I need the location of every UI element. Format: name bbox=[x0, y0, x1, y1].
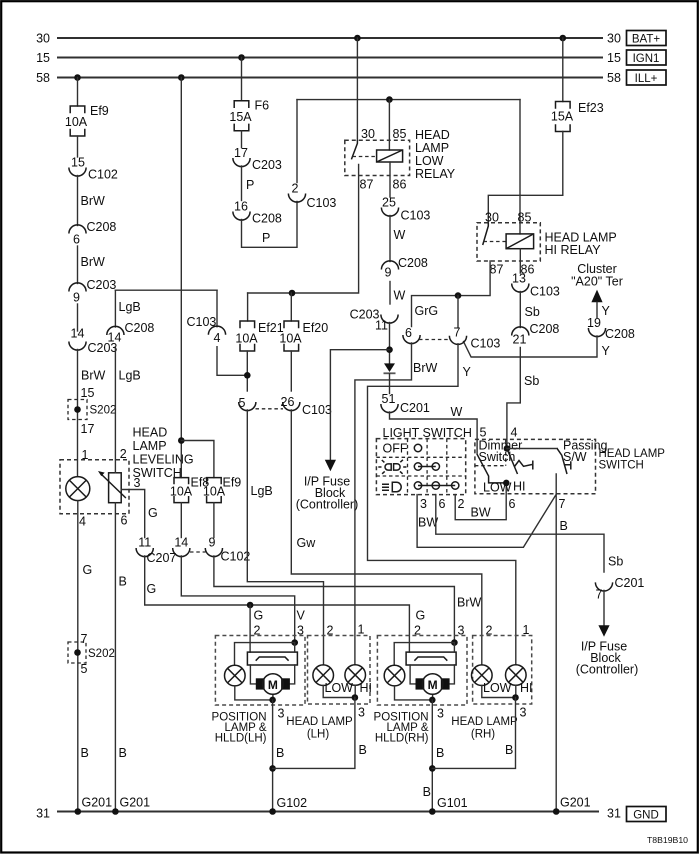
svg-text:W: W bbox=[394, 228, 406, 242]
svg-text:6: 6 bbox=[509, 497, 516, 511]
dashed link C103 5-26 bbox=[256, 408, 284, 410]
svg-text:G201: G201 bbox=[82, 796, 113, 810]
svg-text:B: B bbox=[560, 519, 568, 533]
svg-text:LOW: LOW bbox=[325, 681, 354, 695]
svg-text:C103: C103 bbox=[307, 196, 337, 210]
ground G201 junction bbox=[75, 808, 82, 815]
svg-text:Sb: Sb bbox=[525, 305, 540, 319]
svg-text:21: 21 bbox=[513, 333, 527, 347]
svg-text:31: 31 bbox=[607, 807, 621, 821]
connector 11 C203 bbox=[350, 308, 398, 333]
svg-text:C208: C208 bbox=[87, 220, 117, 234]
wire Ef8 to C102-14 bbox=[180, 503, 182, 538]
passing switch label bbox=[563, 439, 608, 465]
wire B position lamp RH to G101 bbox=[423, 700, 468, 812]
connector 14 C208 bbox=[107, 321, 155, 345]
svg-text:OFF: OFF bbox=[383, 442, 408, 456]
svg-text:G102: G102 bbox=[277, 796, 308, 810]
ground G102 junction bbox=[269, 808, 276, 815]
svg-text:S/W: S/W bbox=[563, 450, 587, 464]
wire Ef21 drop bbox=[247, 293, 249, 321]
junction to I/P fuse block branch bbox=[386, 346, 393, 353]
svg-text:C103: C103 bbox=[530, 285, 560, 299]
svg-text:Sb: Sb bbox=[608, 555, 623, 569]
svg-text:3: 3 bbox=[278, 707, 285, 721]
svg-text:"A20" Ter: "A20" Ter bbox=[571, 275, 623, 289]
wire bus30 to fuse Ef23 bbox=[562, 38, 564, 102]
svg-text:30: 30 bbox=[36, 32, 50, 46]
svg-text:G: G bbox=[83, 563, 93, 577]
wire LOW relay pin 86 to C103-25 bbox=[389, 162, 391, 197]
svg-text:3: 3 bbox=[420, 497, 427, 511]
wire B head lamp switch pin7 to G201 bbox=[556, 474, 590, 812]
wire G C207 to position lamps pin2 bbox=[145, 556, 410, 652]
svg-text:BrW: BrW bbox=[81, 194, 106, 208]
fuse Ef20 10A bbox=[279, 321, 328, 351]
junction with head lamp LH return bbox=[269, 765, 276, 772]
connector 9 C102 bbox=[205, 536, 250, 564]
diode D1 bbox=[384, 363, 396, 373]
connector 19 C208 bbox=[587, 316, 635, 341]
wire bus15 to fuse F6 bbox=[241, 58, 243, 101]
svg-text:LgB: LgB bbox=[119, 369, 141, 383]
svg-text:LAMP: LAMP bbox=[415, 141, 449, 155]
junction Ef21 to leveling feed bbox=[244, 372, 251, 379]
wire Ef20 drop bbox=[290, 293, 292, 321]
fuse Ef21 10A bbox=[235, 321, 283, 351]
svg-text:BrW: BrW bbox=[81, 255, 106, 269]
svg-text:C208: C208 bbox=[252, 212, 282, 226]
svg-text:B: B bbox=[81, 746, 89, 760]
svg-text:GND: GND bbox=[633, 809, 659, 821]
wire to LOW relay pin 85 bbox=[388, 100, 390, 150]
svg-text:G: G bbox=[147, 582, 157, 596]
wire Sb C103-13 to C208-21 bbox=[520, 292, 540, 328]
passing switch blade bbox=[557, 449, 567, 474]
svg-text:10A: 10A bbox=[203, 485, 226, 499]
head lamp LH box bbox=[286, 636, 370, 741]
wire Y C208-19 to C103-7 bbox=[464, 336, 611, 358]
head lamp LH low bulb bbox=[313, 665, 334, 686]
wire bus58 to fuse Ef9 bbox=[77, 78, 79, 107]
svg-text:Ef9: Ef9 bbox=[90, 104, 109, 118]
svg-text:C103: C103 bbox=[401, 209, 431, 223]
svg-text:Y: Y bbox=[463, 365, 472, 379]
wire Ef20 to C103-26 bbox=[290, 351, 292, 391]
svg-text:C102: C102 bbox=[221, 550, 251, 564]
svg-text:2: 2 bbox=[292, 182, 299, 196]
wire HI relay pin 87 to C103-6 bbox=[412, 261, 491, 327]
svg-text:C201: C201 bbox=[615, 576, 645, 590]
svg-text:HI: HI bbox=[520, 681, 533, 695]
svg-text:B: B bbox=[119, 746, 127, 760]
svg-text:11: 11 bbox=[138, 536, 151, 550]
wire Y C103-7 to head lamp RH hi bbox=[368, 344, 530, 664]
light switch box bbox=[376, 439, 465, 495]
bus 30 BAT+ bbox=[36, 31, 666, 46]
svg-text:F6: F6 bbox=[255, 99, 270, 113]
connector 13 C103 bbox=[512, 272, 560, 299]
svg-text:5: 5 bbox=[239, 396, 246, 410]
wire C103-4 to Ef21 output bbox=[217, 347, 247, 376]
svg-text:B: B bbox=[423, 785, 431, 799]
wire lamp to motor junction bbox=[395, 686, 433, 700]
svg-text:3: 3 bbox=[134, 476, 141, 490]
wire Ef23 to HI relay pin 30 bbox=[488, 132, 563, 223]
svg-text:10A: 10A bbox=[170, 485, 193, 499]
svg-text:2: 2 bbox=[458, 497, 465, 511]
junction to Ef9 branch bbox=[178, 437, 185, 444]
connector 17 C203 bbox=[233, 146, 282, 172]
wire pin3 to actuator bbox=[453, 643, 455, 653]
junction head lamp LH common bbox=[352, 694, 359, 701]
svg-text:3: 3 bbox=[437, 707, 444, 721]
position lamp RH bbox=[384, 665, 405, 686]
junction to C103-7 bbox=[455, 292, 462, 299]
svg-text:85: 85 bbox=[393, 127, 407, 141]
svg-text:17: 17 bbox=[234, 146, 248, 160]
svg-text:6: 6 bbox=[405, 326, 412, 340]
junction with head lamp RH return bbox=[429, 765, 436, 772]
junction pin3 LH bbox=[291, 639, 298, 646]
junction on bus 15 bbox=[238, 54, 245, 61]
wire LgB to leveling pin 2 bbox=[115, 347, 140, 473]
wire LOW relay pin 87 to Ef21/Ef20 bbox=[248, 164, 359, 293]
svg-text:HEAD: HEAD bbox=[415, 128, 450, 142]
wire Ef9 to C102 bbox=[77, 136, 79, 157]
junction motor bottom bbox=[269, 697, 276, 704]
svg-text:14: 14 bbox=[71, 327, 85, 341]
svg-text:26: 26 bbox=[281, 395, 295, 409]
LOW HI labels bbox=[325, 681, 373, 695]
svg-text:G: G bbox=[148, 506, 158, 520]
svg-text:P: P bbox=[246, 178, 254, 192]
svg-text:LEVELING: LEVELING bbox=[133, 453, 194, 467]
svg-text:58: 58 bbox=[36, 71, 50, 85]
svg-text:C201: C201 bbox=[400, 401, 430, 415]
svg-text:17: 17 bbox=[81, 422, 95, 436]
svg-text:G201: G201 bbox=[120, 796, 151, 810]
splice S202 lower bbox=[68, 642, 115, 676]
wire lamp commons bbox=[482, 685, 516, 697]
position lamp & HLLD LH box bbox=[212, 636, 305, 745]
svg-text:ILL+: ILL+ bbox=[635, 73, 658, 85]
svg-text:C208: C208 bbox=[605, 327, 635, 341]
wire LgB C103-5 to head lamp LH low bbox=[247, 410, 333, 664]
junction pin3 RH bbox=[451, 639, 458, 646]
head lamp LH hi bulb bbox=[345, 665, 366, 686]
svg-text:5: 5 bbox=[81, 662, 88, 676]
connector 7 C201 bbox=[595, 576, 644, 602]
wire to connector 4 C103 bbox=[216, 290, 218, 327]
connector 26 C103 bbox=[281, 395, 332, 417]
connector 6 C208 bbox=[69, 220, 117, 247]
light switch park row contacts bbox=[414, 463, 439, 470]
svg-text:15: 15 bbox=[607, 51, 621, 65]
wire B position lamp LH to G102 bbox=[273, 700, 308, 812]
position lamp & HLLD RH box bbox=[374, 636, 467, 745]
svg-text:C208: C208 bbox=[125, 321, 155, 335]
svg-text:HI: HI bbox=[360, 681, 373, 695]
junction on bus 30 bbox=[560, 35, 567, 42]
light switch OFF row bbox=[383, 442, 422, 456]
junction on bus 58 bbox=[74, 74, 81, 81]
ground G101 junction bbox=[429, 808, 436, 815]
fuse F6 15A bbox=[229, 99, 269, 131]
wire BrW C102 to C208 bbox=[78, 176, 106, 226]
svg-text:LgB: LgB bbox=[251, 484, 273, 498]
svg-text:30: 30 bbox=[485, 211, 499, 225]
svg-text:25: 25 bbox=[382, 196, 396, 210]
svg-text:51: 51 bbox=[382, 392, 396, 406]
svg-text:BAT+: BAT+ bbox=[632, 33, 661, 45]
svg-text:14: 14 bbox=[174, 536, 188, 550]
svg-text:4: 4 bbox=[79, 515, 86, 529]
svg-text:16: 16 bbox=[234, 200, 248, 214]
wire pin3 to actuator bbox=[294, 643, 296, 653]
svg-text:G: G bbox=[416, 609, 426, 623]
wire F6 to C203 bbox=[241, 131, 243, 148]
passing switch contact bbox=[564, 461, 571, 469]
junction pin4 bbox=[504, 445, 511, 452]
wire Ef21 to C103-5 bbox=[246, 351, 248, 391]
svg-text:RELAY: RELAY bbox=[415, 167, 456, 181]
svg-text:31: 31 bbox=[36, 807, 50, 821]
connector 14 C203 bbox=[69, 327, 118, 356]
connector 16 C208 bbox=[233, 200, 282, 226]
dimmer spring contact bbox=[515, 461, 533, 470]
dashed link C102 bbox=[190, 551, 206, 553]
svg-text:C203: C203 bbox=[87, 278, 117, 292]
svg-text:30: 30 bbox=[607, 32, 621, 46]
svg-text:LOW: LOW bbox=[483, 681, 512, 695]
wire diode to C201-51 bbox=[389, 373, 391, 393]
connector 5 C103 bbox=[239, 396, 256, 411]
svg-text:HLLD(LH): HLLD(LH) bbox=[215, 733, 267, 745]
svg-text:6: 6 bbox=[121, 514, 128, 528]
svg-text:9: 9 bbox=[385, 266, 392, 280]
splice S202 bbox=[68, 400, 116, 437]
head lamp low relay U1 bbox=[345, 127, 456, 192]
svg-text:15A: 15A bbox=[551, 110, 574, 124]
wire G to position lamp LH pin2 bbox=[250, 605, 263, 652]
ground G201 junction bbox=[112, 808, 119, 815]
svg-text:15: 15 bbox=[71, 156, 85, 170]
wire lamp commons bbox=[323, 685, 355, 697]
connector 7 C103 bbox=[449, 326, 500, 351]
svg-text:9: 9 bbox=[209, 536, 216, 550]
wire BrW C102-9 to position lamp RH pin3 bbox=[214, 556, 482, 643]
arrow to I/P fuse block bbox=[325, 460, 336, 472]
wire bus58 down to Ef8 bbox=[180, 78, 182, 478]
wire branch to C103-7 bbox=[457, 296, 459, 328]
svg-text:G101: G101 bbox=[437, 796, 468, 810]
connector 14 C102 bbox=[173, 536, 190, 557]
wire C203-11 to diode bbox=[389, 323, 391, 364]
svg-text:13: 13 bbox=[512, 272, 526, 286]
leveling switch potentiometer bbox=[98, 471, 126, 503]
fuse Ef8 10A bbox=[170, 476, 209, 503]
svg-text:W: W bbox=[394, 289, 406, 303]
leveling switch lamp bbox=[66, 477, 90, 501]
wire LgB down to connector bbox=[115, 290, 140, 327]
svg-text:HI RELAY: HI RELAY bbox=[545, 243, 602, 257]
junction head lamp RH common bbox=[512, 694, 519, 701]
svg-text:C203: C203 bbox=[252, 158, 282, 172]
position lamp LH bbox=[225, 665, 246, 686]
wire Sb C208-21 to head lamp switch pin4 bbox=[507, 348, 539, 449]
svg-text:85: 85 bbox=[518, 211, 532, 225]
svg-text:P: P bbox=[262, 231, 270, 245]
svg-text:87: 87 bbox=[490, 263, 504, 277]
wire P C208 to C103-2 bbox=[242, 202, 298, 248]
svg-text:Y: Y bbox=[602, 304, 611, 318]
svg-text:10A: 10A bbox=[65, 115, 88, 129]
arrow to I/P fuse block bbox=[598, 625, 609, 637]
svg-text:Gw: Gw bbox=[297, 536, 317, 550]
svg-text:IGN1: IGN1 bbox=[633, 53, 660, 65]
ground G201 junction bbox=[553, 808, 560, 815]
LOW HI labels bbox=[483, 681, 533, 695]
I/P fuse block label bbox=[576, 640, 639, 677]
bus 58 ILL+ bbox=[36, 70, 666, 85]
svg-text:1: 1 bbox=[358, 623, 365, 637]
svg-text:GrG: GrG bbox=[415, 304, 439, 318]
svg-text:B: B bbox=[119, 575, 127, 589]
svg-text:15: 15 bbox=[36, 51, 50, 65]
wire B to ground G201 bbox=[81, 746, 113, 810]
svg-text:HI: HI bbox=[513, 480, 526, 494]
svg-text:BW: BW bbox=[471, 506, 491, 520]
wires actuator to motor bbox=[410, 665, 454, 684]
head lamp switch box bbox=[475, 439, 665, 493]
svg-text:5: 5 bbox=[480, 426, 487, 440]
junction on bus 30 bbox=[354, 35, 361, 42]
svg-text:C103: C103 bbox=[471, 337, 501, 351]
svg-text:B: B bbox=[505, 743, 513, 757]
connector 21 C208 bbox=[512, 322, 560, 347]
svg-text:BrW: BrW bbox=[457, 596, 482, 610]
wire BrW C203 to leveling switch pin1 bbox=[78, 350, 106, 477]
svg-text:LOW: LOW bbox=[415, 154, 444, 168]
svg-text:14: 14 bbox=[108, 331, 122, 345]
svg-text:3: 3 bbox=[358, 706, 365, 720]
svg-text:S202: S202 bbox=[88, 648, 115, 660]
junction Ef20 bbox=[289, 290, 296, 297]
svg-text:7: 7 bbox=[454, 326, 461, 340]
svg-text:30: 30 bbox=[361, 127, 375, 141]
svg-text:(Controller): (Controller) bbox=[296, 498, 359, 512]
wire lamp to motor junction bbox=[235, 686, 273, 700]
svg-text:10A: 10A bbox=[279, 331, 302, 345]
svg-text:BrW: BrW bbox=[81, 369, 106, 383]
svg-text:HEAD LAMP: HEAD LAMP bbox=[599, 448, 666, 460]
svg-text:G201: G201 bbox=[560, 796, 591, 810]
junction G to LH position lamp bbox=[247, 602, 254, 609]
svg-text:58: 58 bbox=[607, 71, 621, 85]
wire C203-9 to C203-14 bbox=[77, 304, 79, 331]
svg-text:10A: 10A bbox=[235, 331, 258, 345]
labels G/2 at RH position lamp bbox=[414, 609, 425, 638]
dimmer switch label bbox=[479, 439, 523, 465]
connector 9 C203 bbox=[69, 278, 117, 305]
wire coil rail to HI relay pin 85 bbox=[519, 100, 521, 234]
wire coil feed rail y=99.6 bbox=[297, 99, 520, 101]
svg-text:Ef20: Ef20 bbox=[303, 321, 329, 335]
svg-text:HEAD LAMP: HEAD LAMP bbox=[451, 716, 518, 728]
svg-text:B: B bbox=[436, 746, 444, 760]
svg-text:M: M bbox=[428, 678, 438, 692]
svg-text:(RH): (RH) bbox=[471, 729, 495, 741]
wire B leveling pin6 to G201 bbox=[115, 503, 150, 812]
head lamp RH hi bulb bbox=[506, 665, 527, 686]
svg-text:C103: C103 bbox=[187, 315, 217, 329]
wire HI relay pin 86 to C103-13 bbox=[519, 249, 521, 273]
svg-text:11: 11 bbox=[375, 319, 388, 333]
svg-text:Ef23: Ef23 bbox=[578, 101, 604, 115]
svg-text:Ef9: Ef9 bbox=[223, 476, 242, 490]
head lamp leveling switch box bbox=[60, 426, 194, 514]
wire Gw C103-26 to head lamp RH low bbox=[291, 410, 492, 664]
wire bus30 to LOW relay pin 30 bbox=[356, 38, 358, 140]
wire G leveling pin4 to S202 to G201 bbox=[78, 501, 92, 812]
light switch head row icon bbox=[382, 482, 401, 491]
svg-text:C207: C207 bbox=[147, 551, 177, 565]
wires actuator to motor bbox=[250, 665, 294, 700]
svg-text:SWITCH: SWITCH bbox=[599, 460, 644, 472]
svg-text:15A: 15A bbox=[229, 110, 252, 124]
svg-text:B: B bbox=[276, 746, 284, 760]
svg-text:19: 19 bbox=[587, 316, 601, 330]
head lamp hi relay U2 bbox=[477, 211, 617, 277]
svg-text:C208: C208 bbox=[530, 322, 560, 336]
wire P C203 to C208 bbox=[242, 166, 255, 201]
fuse Ef23 15A bbox=[551, 101, 604, 132]
LH HLLD actuator bbox=[247, 652, 297, 665]
motor M LH bbox=[256, 674, 290, 695]
connector 11 C207 bbox=[136, 536, 176, 566]
connector 15 C102 bbox=[69, 156, 118, 182]
wire BW light switch pin3 to head lamp switch pin7 bbox=[417, 494, 556, 547]
svg-text:6: 6 bbox=[439, 497, 446, 511]
connector 2 C103 bbox=[288, 182, 336, 211]
svg-text:LgB: LgB bbox=[119, 300, 141, 314]
svg-text:9: 9 bbox=[73, 291, 80, 305]
wire LgB horizontal from C208-14 to C103-4 bbox=[115, 289, 217, 291]
svg-text:V: V bbox=[297, 609, 306, 623]
wire pin3 to position lamp LH bbox=[235, 643, 295, 666]
wire W C103-25 to C208-9 bbox=[390, 216, 406, 262]
svg-text:87: 87 bbox=[360, 178, 374, 192]
svg-text:HLLD(RH): HLLD(RH) bbox=[375, 733, 429, 745]
wire Ef9 to C102-9 bbox=[213, 503, 215, 538]
svg-text:Y: Y bbox=[602, 344, 611, 358]
wire pin4 to passing switch bbox=[507, 448, 557, 450]
wire G leveling pin3 to C207 bbox=[121, 490, 158, 538]
wire pin3 to position lamp RH bbox=[394, 643, 454, 666]
LOW HI labels bbox=[483, 480, 526, 495]
svg-text:W: W bbox=[451, 405, 463, 419]
bus 15 IGN1 bbox=[36, 50, 666, 65]
svg-text:HEAD LAMP: HEAD LAMP bbox=[286, 716, 353, 728]
svg-text:C208: C208 bbox=[398, 256, 428, 270]
light switch park row icon bbox=[378, 460, 406, 474]
wire C201-7 to I/P fuse block bbox=[603, 590, 605, 625]
svg-text:M: M bbox=[268, 678, 278, 692]
junction motor bottom bbox=[429, 697, 436, 704]
fuse Ef9 10A (second) bbox=[203, 476, 241, 503]
head lamp RH box bbox=[451, 636, 531, 741]
